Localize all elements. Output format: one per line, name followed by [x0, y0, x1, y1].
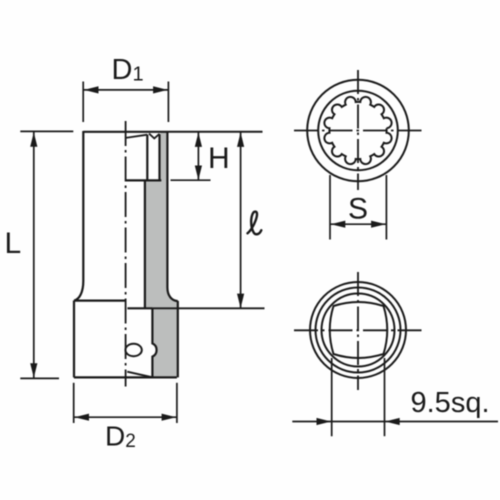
chamfer circle: [318, 91, 398, 171]
socket top edge: [83, 131, 168, 133]
square drive end view: [310, 282, 406, 378]
outer circle: [307, 80, 409, 182]
lower body left wall: [73, 301, 75, 378]
dimension L: [20, 131, 73, 378]
broach wall A: [146, 135, 148, 181]
svg-text:H: H: [208, 142, 230, 175]
svg-text:D1: D1: [112, 54, 144, 86]
socket upper-left wall with fillet: [74, 131, 83, 301]
opening chamfer line: [126, 135, 148, 138]
chamfer V notch: [149, 134, 160, 139]
shoulder line left: [74, 300, 126, 302]
12 point profile: [324, 97, 391, 164]
crosshair top view: [294, 130, 423, 132]
12pt end view: [307, 80, 409, 182]
bore wall: [144, 180, 146, 308]
svg-text:D2: D2: [105, 421, 136, 452]
bottom chamfer arc: [127, 372, 152, 378]
label script ell: [248, 212, 262, 235]
middle circle: [316, 288, 401, 373]
socket bottom edge: [74, 376, 177, 378]
dimension D2: [74, 383, 177, 423]
chamfer circle: [322, 294, 395, 367]
dimension 9.5sq: [292, 358, 498, 436]
outer circle: [310, 282, 406, 378]
svg-text:S: S: [348, 193, 368, 226]
socket upper-right wall with fillet: [167, 131, 177, 301]
lower body right wall: [177, 301, 179, 378]
square hole ceiling: [127, 307, 152, 309]
square hole: [330, 302, 388, 358]
socket outline group: [74, 131, 178, 377]
svg-text:L: L: [5, 227, 22, 260]
centerline: [125, 121, 127, 387]
square hole wall with pin bulge: [152, 308, 156, 377]
broach wall B: [158, 134, 160, 180]
svg-text:9.5sq.: 9.5sq.: [411, 387, 490, 419]
crosshair bottom view: [294, 329, 423, 331]
dimension l (script ell): [153, 132, 265, 308]
section hatch fill (gray cut material of socket body): [146, 132, 178, 377]
pin hole: [125, 344, 141, 356]
broach bottom line: [126, 179, 162, 181]
dimension S: [330, 175, 386, 240]
dimension H: [168, 132, 262, 180]
dimension D1: [83, 82, 168, 123]
